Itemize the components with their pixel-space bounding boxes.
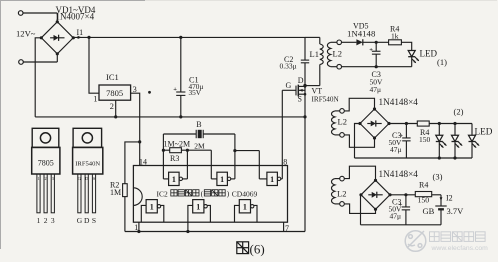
- svg-text:2: 2: [44, 216, 48, 225]
- svg-text:1: 1: [37, 216, 41, 225]
- svg-text:+: +: [369, 46, 373, 53]
- svg-text:L1: L1: [310, 49, 319, 59]
- svg-text:+: +: [173, 86, 177, 93]
- svg-text:R3: R3: [170, 154, 179, 163]
- svg-text:1: 1: [93, 95, 97, 104]
- svg-text:IC2: IC2: [157, 189, 169, 198]
- svg-text:(3): (3): [433, 171, 443, 181]
- svg-text:G: G: [286, 81, 292, 90]
- svg-text:S: S: [298, 94, 302, 103]
- svg-text:LED: LED: [475, 126, 493, 136]
- svg-text:I1: I1: [77, 28, 84, 37]
- svg-text:): ): [227, 189, 230, 198]
- svg-text:D: D: [298, 76, 304, 85]
- svg-text:1: 1: [196, 202, 200, 211]
- svg-text:2: 2: [45, 176, 47, 181]
- svg-text:12V~: 12V~: [16, 29, 36, 39]
- svg-text:CD4069: CD4069: [232, 189, 258, 198]
- svg-text:IRF540N: IRF540N: [312, 95, 340, 103]
- svg-text:L2: L2: [338, 117, 347, 127]
- svg-text:1: 1: [243, 202, 247, 211]
- svg-text:D: D: [84, 216, 90, 225]
- svg-text:LED: LED: [420, 49, 438, 59]
- svg-text:1k: 1k: [391, 31, 399, 40]
- svg-text:1: 1: [270, 175, 274, 184]
- svg-text:47μ: 47μ: [390, 145, 402, 154]
- svg-text:1N4148×4: 1N4148×4: [379, 97, 419, 107]
- svg-text:I2: I2: [446, 193, 453, 202]
- svg-text:1: 1: [37, 176, 39, 181]
- svg-text:(1): (1): [437, 57, 447, 67]
- svg-text:L2: L2: [333, 49, 342, 59]
- svg-text:GB: GB: [423, 206, 435, 216]
- svg-text:IC1: IC1: [106, 72, 119, 82]
- svg-text:3.7V: 3.7V: [447, 206, 465, 216]
- svg-text:1M: 1M: [110, 188, 121, 197]
- svg-text:G: G: [78, 176, 81, 181]
- svg-text:3: 3: [51, 216, 55, 225]
- svg-text:8: 8: [283, 157, 287, 166]
- svg-text:R4: R4: [419, 180, 428, 189]
- svg-text:L2: L2: [337, 188, 346, 198]
- svg-text:VT: VT: [312, 86, 323, 95]
- svg-text:7805: 7805: [106, 88, 123, 98]
- svg-text:2: 2: [110, 102, 114, 111]
- svg-text:3: 3: [52, 176, 54, 181]
- svg-text:150: 150: [419, 135, 431, 144]
- svg-text:IRF540N: IRF540N: [75, 161, 100, 168]
- svg-text:150: 150: [418, 196, 430, 205]
- svg-text:(6): (6): [250, 242, 265, 257]
- svg-text:(2): (2): [454, 107, 464, 117]
- svg-text:0.33μ: 0.33μ: [280, 62, 297, 71]
- svg-text:1: 1: [220, 175, 224, 184]
- svg-text:14: 14: [139, 157, 147, 166]
- svg-text:(: (: [201, 189, 204, 198]
- svg-text:D: D: [85, 176, 88, 181]
- svg-text:1N4148×4: 1N4148×4: [379, 169, 419, 179]
- svg-text:B: B: [196, 120, 201, 129]
- svg-text:1N4148: 1N4148: [347, 29, 376, 39]
- svg-text:S: S: [92, 216, 96, 225]
- svg-text:www.elecfans.com: www.elecfans.com: [431, 245, 489, 252]
- svg-text:47μ: 47μ: [370, 85, 382, 94]
- svg-text:G: G: [77, 216, 83, 225]
- svg-text:2M: 2M: [194, 141, 205, 150]
- svg-text:35V: 35V: [189, 88, 202, 97]
- svg-text:47μ: 47μ: [390, 211, 402, 220]
- svg-text:1: 1: [172, 175, 176, 184]
- svg-text:1N4007×4: 1N4007×4: [56, 12, 95, 22]
- svg-text:7805: 7805: [38, 159, 54, 168]
- svg-text:1: 1: [150, 202, 154, 211]
